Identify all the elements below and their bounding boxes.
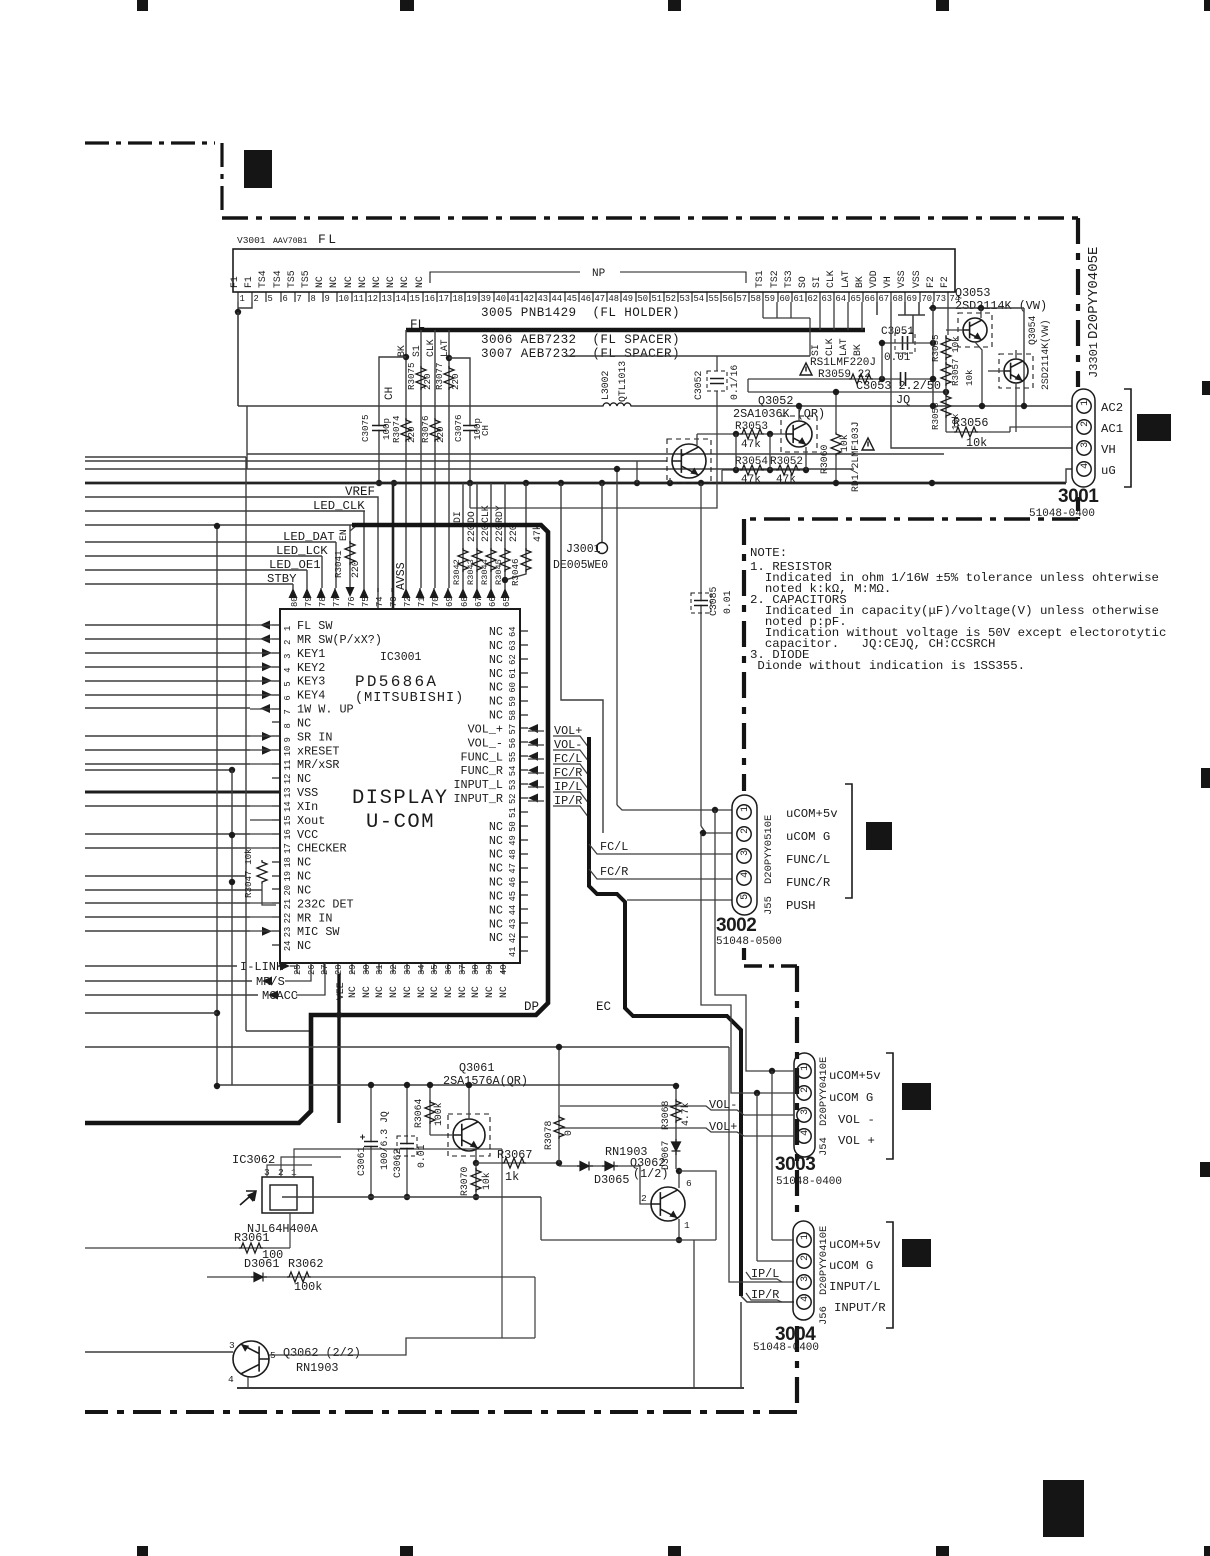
capacitor C3076 — [463, 426, 477, 429]
svg-text:1: 1 — [684, 1220, 690, 1231]
svg-text:J54: J54 — [818, 1137, 830, 1156]
svg-text:3001: 3001 — [1058, 486, 1099, 507]
svg-text:VDD: VDD — [868, 270, 879, 288]
junction — [391, 480, 397, 486]
wire Q3061 emitter — [475, 1148, 477, 1163]
svg-text:65: 65 — [502, 596, 512, 607]
svg-text:AC1: AC1 — [1101, 422, 1123, 436]
svg-text:AC2: AC2 — [1101, 401, 1123, 415]
svg-text:77: 77 — [332, 596, 342, 607]
svg-text:1: 1 — [240, 294, 245, 304]
svg-text:43: 43 — [538, 294, 549, 304]
wire x541 — [540, 1197, 542, 1240]
junction LAT-C3076 — [446, 355, 452, 361]
wire Q3051 collector — [696, 434, 698, 445]
wire IP/L net — [729, 1047, 794, 1282]
wire C3052 top — [716, 356, 718, 371]
wire to DP bus thin part — [85, 524, 352, 526]
arrow into IC top pin — [303, 588, 312, 598]
svg-text:MR IN: MR IN — [297, 911, 332, 925]
svg-text:uCOM+5v: uCOM+5v — [829, 1238, 881, 1252]
board border dash-dot lower vertical upper — [795, 966, 799, 1218]
junction Q3061 emitter — [473, 1160, 479, 1166]
svg-text:11: 11 — [283, 760, 293, 771]
junction C3062 top — [404, 1082, 410, 1088]
svg-text:3002: 3002 — [716, 915, 756, 936]
resistor R3060 10k — [831, 432, 841, 456]
wire S1 column — [420, 330, 422, 588]
svg-text:3: 3 — [800, 1276, 811, 1282]
svg-text:J3301: J3301 — [1087, 342, 1101, 378]
junction x217 bottom — [214, 1010, 220, 1016]
svg-text:59: 59 — [508, 696, 518, 707]
wire ladder to IC row 9 — [85, 735, 250, 737]
arrow into IC — [528, 766, 538, 775]
resistor R3061 100 — [239, 1243, 263, 1253]
wire 3003 pin1 rail — [715, 810, 794, 1071]
svg-text:63: 63 — [822, 294, 833, 304]
svg-text:50: 50 — [508, 821, 518, 832]
junction x933 d — [930, 403, 936, 409]
wire ladder y1013 — [85, 1012, 217, 1014]
connector 3002 pin 3 — [737, 849, 751, 863]
junction R3067 right — [556, 1160, 562, 1166]
svg-text:C3062: C3062 — [392, 1148, 403, 1178]
EC signal bus thick wire — [589, 737, 741, 1296]
junction R3046 bus — [523, 480, 529, 486]
arrow in — [262, 648, 272, 657]
wire ladder y542 — [85, 541, 336, 543]
svg-text:3: 3 — [1080, 442, 1091, 448]
svg-text:NC: NC — [457, 986, 468, 998]
junction Q3053 collector — [978, 305, 984, 311]
svg-text:47k: 47k — [741, 474, 761, 486]
svg-text:51: 51 — [508, 807, 518, 818]
svg-text:VCC: VCC — [297, 828, 318, 842]
junction C3075 to VREF bus — [376, 480, 382, 486]
capacitor C3075 — [372, 426, 386, 429]
wire Q3061 collector — [468, 1085, 470, 1119]
registration mark bottom 5 — [1204, 1546, 1210, 1556]
wire ladder y584 — [85, 583, 293, 585]
arrow out — [260, 704, 270, 713]
wire ladder to IC row 4 — [85, 666, 250, 668]
svg-text:SO: SO — [797, 276, 808, 288]
svg-text:R3041: R3041 — [333, 550, 344, 578]
svg-text:1: 1 — [1080, 400, 1091, 406]
wire R3064 to Q3061 base — [430, 1134, 452, 1136]
svg-text:69: 69 — [445, 596, 455, 607]
svg-text:NC: NC — [489, 876, 503, 890]
board border dash-dot right edge stub — [1076, 497, 1080, 519]
wire 3004 pin1 — [772, 1239, 794, 1241]
svg-text:Xout: Xout — [297, 814, 325, 828]
wire Q3053 base — [946, 329, 963, 331]
svg-text:44: 44 — [552, 294, 563, 304]
svg-text:NC: NC — [489, 820, 503, 834]
warning triangle 2 — [862, 438, 874, 450]
junction R3070 bottom — [473, 1194, 479, 1200]
svg-text:66: 66 — [865, 294, 876, 304]
resistor R3055 10k — [941, 336, 951, 360]
board border dash-dot middle vertical lower — [742, 948, 746, 966]
arrow into IC top pin — [331, 588, 340, 598]
resistor R3052 47k — [776, 465, 800, 475]
capacitor C3052 — [710, 379, 724, 382]
edge mark right 3 — [1200, 1162, 1210, 1177]
junction C3053 left — [879, 376, 885, 382]
svg-text:71: 71 — [417, 596, 427, 607]
svg-text:C3076: C3076 — [453, 414, 464, 442]
svg-text:KEY2: KEY2 — [297, 661, 325, 675]
svg-text:R3043: R3043 — [466, 559, 476, 585]
svg-text:R3077: R3077 — [434, 362, 445, 390]
svg-text:C3061: C3061 — [356, 1146, 367, 1176]
junction C3076 to VREF bus — [467, 480, 473, 486]
wire x882 — [881, 343, 883, 379]
svg-text:51048-0500: 51048-0500 — [716, 936, 782, 948]
wire ladder to IC row 6 — [85, 694, 250, 696]
wire uG to bus — [1066, 469, 1072, 483]
svg-text:220: 220 — [422, 373, 433, 390]
svg-text:R3068: R3068 — [660, 1100, 671, 1130]
wire ladder to IC row 1 — [85, 624, 250, 626]
junction R3064 top — [427, 1082, 433, 1088]
wire IP/R label stub — [746, 1293, 782, 1302]
svg-text:2: 2 — [800, 1087, 811, 1093]
wire Q3053 collector — [980, 308, 982, 318]
connector 3003 pin 2 — [797, 1086, 811, 1100]
svg-text:uG: uG — [1101, 464, 1116, 478]
junction C3061 bottom — [368, 1194, 374, 1200]
wire 47k left vertical — [735, 434, 737, 470]
svg-text:13: 13 — [382, 294, 393, 304]
junction Q3051 emitter — [667, 480, 673, 486]
svg-text:R3057 10k: R3057 10k — [950, 336, 961, 386]
svg-text:0: 0 — [563, 1130, 574, 1136]
svg-text:R3064: R3064 — [413, 1098, 424, 1128]
wire ladder to IC row 7 — [85, 707, 250, 709]
svg-text:uCOM G: uCOM G — [829, 1091, 873, 1105]
arrow into IC — [528, 752, 538, 761]
svg-text:3: 3 — [229, 1340, 235, 1351]
svg-text:LED_OE1: LED_OE1 — [269, 558, 321, 572]
bracket 3002 — [845, 784, 852, 898]
wire to Q3062 base — [640, 1166, 652, 1204]
resistor on CLK column — [486, 548, 496, 572]
junction C3085 top — [698, 480, 704, 486]
svg-text:7: 7 — [283, 709, 293, 714]
svg-text:68: 68 — [460, 596, 470, 607]
registration mark top 4 — [936, 0, 949, 11]
svg-text:VSS: VSS — [896, 270, 907, 288]
wire ladder to IC row 14 — [85, 805, 250, 807]
wire C3062 column — [406, 1085, 408, 1197]
wire Q3051 emitter — [669, 478, 671, 483]
wire staircase to IC pin x293 — [292, 584, 294, 588]
svg-text:53: 53 — [508, 780, 518, 791]
board border dash-dot lower vertical lower — [795, 1326, 799, 1412]
svg-text:FC/L: FC/L — [600, 840, 628, 854]
wire ladder y511 — [85, 510, 365, 512]
wire Q3062 collector — [678, 1171, 680, 1188]
svg-text:73: 73 — [936, 294, 947, 304]
arrow in — [262, 662, 272, 671]
wire vertical x246 — [245, 457, 247, 1031]
wire 3002 pin2 — [701, 826, 732, 833]
svg-text:76: 76 — [347, 596, 357, 607]
IC3062 photodetector box — [262, 1177, 313, 1213]
svg-text:55: 55 — [709, 294, 720, 304]
arrow into IC top pin — [501, 588, 510, 598]
svg-text:47: 47 — [595, 294, 606, 304]
svg-text:0.01: 0.01 — [416, 1144, 427, 1168]
svg-text:R3061: R3061 — [234, 1231, 269, 1245]
svg-text:SR IN: SR IN — [297, 730, 332, 744]
svg-text:23: 23 — [283, 927, 293, 938]
registration mark bottom 3 — [668, 1546, 681, 1556]
svg-text:AAV70B1: AAV70B1 — [273, 237, 307, 246]
wire to pin26 — [285, 963, 311, 981]
registration mark bottom 4 — [936, 1546, 949, 1556]
black square near connector 3002 — [866, 822, 892, 850]
junction 3003 pin1 — [769, 1068, 775, 1074]
svg-text:NC: NC — [489, 625, 503, 639]
wire FL pin2 — [238, 302, 252, 308]
junction R3078 top — [556, 1044, 562, 1050]
svg-text:2SD2114K (VW): 2SD2114K (VW) — [955, 299, 1047, 313]
junction x232 b — [229, 832, 235, 838]
svg-text:10k: 10k — [964, 369, 975, 386]
svg-text:J3001: J3001 — [566, 543, 601, 556]
wire LAT column — [448, 330, 450, 588]
arrow into IC — [528, 794, 538, 803]
svg-text:45: 45 — [567, 294, 578, 304]
svg-text:70: 70 — [431, 596, 441, 607]
registration mark top 3 — [668, 0, 681, 11]
wire ladder y457 — [85, 456, 246, 458]
svg-text:FUNC/R: FUNC/R — [786, 876, 831, 890]
svg-text:C3052: C3052 — [693, 370, 704, 400]
svg-text:EN: EN — [338, 529, 349, 541]
wire uCOM G rail — [756, 1093, 758, 1261]
board border dash-dot top edge — [222, 216, 1078, 220]
svg-text:R3076: R3076 — [420, 415, 431, 443]
wire R3056 row — [946, 431, 1010, 433]
wire 3002 pin1 — [617, 805, 732, 810]
svg-text:1: 1 — [800, 1065, 811, 1071]
svg-text:D20PYY0510E: D20PYY0510E — [763, 815, 775, 884]
arrow in — [262, 676, 272, 685]
svg-text:uCOM+5v: uCOM+5v — [829, 1069, 881, 1083]
diode D3065 a — [577, 1162, 593, 1171]
svg-text:79: 79 — [304, 596, 314, 607]
wire C3061 column — [370, 1085, 372, 1197]
svg-text:TS4: TS4 — [272, 270, 283, 288]
svg-text:TS1: TS1 — [754, 270, 765, 288]
wire uCOM+5v x617 — [616, 469, 618, 805]
svg-text:TS2: TS2 — [769, 270, 780, 288]
svg-text:FUNC_R: FUNC_R — [461, 764, 503, 778]
svg-text:STBY: STBY — [267, 572, 297, 586]
svg-text:59: 59 — [765, 294, 776, 304]
wire uCOM G net — [561, 483, 603, 833]
svg-text:R3055: R3055 — [930, 334, 941, 362]
svg-text:NC: NC — [443, 986, 454, 998]
connector 3002 pin 1 — [737, 805, 751, 819]
transistor Q3062 (2/2) — [233, 1341, 269, 1377]
svg-text:9: 9 — [325, 294, 330, 304]
svg-text:61: 61 — [508, 668, 518, 679]
wire staircase to IC pin x322 — [321, 556, 323, 588]
resistor R3070 10k — [471, 1168, 481, 1192]
wire FC/R to 3002 — [589, 869, 732, 879]
svg-text:INPUT/R: INPUT/R — [834, 1301, 886, 1315]
IC3001 left stubs — [250, 624, 272, 626]
arrow in — [262, 690, 272, 699]
connector 3004 pin 1 — [797, 1233, 811, 1247]
junction D3067 top — [673, 1083, 679, 1089]
connector 3003 pin 1 — [797, 1064, 811, 1078]
svg-text:R3074: R3074 — [391, 415, 402, 443]
connector 3001 pin 1 — [1077, 399, 1091, 413]
svg-text:VOL_-: VOL_- — [468, 736, 503, 750]
svg-text:57: 57 — [737, 294, 748, 304]
wire staircase to IC pin x307 — [306, 570, 308, 588]
junction F2 — [930, 305, 936, 311]
junction C3062 bottom — [404, 1194, 410, 1200]
transistor Q3053 — [963, 318, 987, 342]
wire AC1 — [1010, 427, 1072, 432]
svg-text:2: 2 — [1080, 421, 1091, 427]
junction bus x932 — [929, 480, 935, 486]
svg-text:6: 6 — [283, 294, 288, 304]
junction R3060 top — [833, 389, 839, 395]
junction Q3054-AC2 — [1021, 403, 1027, 409]
svg-text:42: 42 — [508, 933, 518, 944]
wire DI column to IC — [462, 483, 464, 588]
svg-text:42: 42 — [524, 294, 535, 304]
svg-text:NC: NC — [489, 903, 503, 917]
svg-text:F1: F1 — [229, 276, 240, 288]
svg-text:62: 62 — [808, 294, 819, 304]
svg-text:1k: 1k — [505, 1170, 519, 1184]
wire ladder to IC row 2 — [85, 638, 250, 640]
wire uCOM+5v rail — [771, 1071, 773, 1240]
arrow into IC top pin — [430, 588, 439, 598]
svg-text:NC: NC — [388, 986, 399, 998]
svg-text:1: 1 — [800, 1234, 811, 1240]
svg-text:10k: 10k — [481, 1172, 492, 1190]
svg-text:0.1/16: 0.1/16 — [729, 365, 740, 400]
wire ladder to IC row 3 — [85, 652, 250, 654]
wire MCACC — [85, 994, 258, 996]
svg-text:232C DET: 232C DET — [297, 897, 354, 911]
svg-text:41: 41 — [510, 294, 521, 304]
wire C3052 bottom — [470, 391, 717, 508]
svg-text:73: 73 — [389, 596, 399, 607]
junction 3002 pin1 — [712, 807, 718, 813]
svg-text:Q3054: Q3054 — [1027, 315, 1038, 345]
svg-text:3005 PNB1429 (FL HOLDER): 3005 PNB1429 (FL HOLDER) — [481, 306, 680, 320]
svg-text:54: 54 — [694, 294, 705, 304]
connector 3002 pin 4 — [737, 871, 751, 885]
connector 3002 pin 2 — [737, 827, 751, 841]
svg-text:47: 47 — [508, 863, 518, 874]
svg-text:78: 78 — [318, 596, 328, 607]
svg-text:MIC SW: MIC SW — [297, 925, 340, 939]
wire D3061 row — [207, 1276, 535, 1278]
arrow into IC top pin — [402, 588, 411, 598]
svg-text:xRESET: xRESET — [297, 744, 339, 758]
wire ladder to IC row 22 — [85, 916, 250, 918]
svg-text:EC: EC — [596, 1000, 611, 1014]
svg-text:51048-0400: 51048-0400 — [753, 1342, 819, 1354]
capacitor C3061 — [364, 1142, 378, 1145]
IC3001 right pin rows — [520, 630, 528, 632]
svg-text:3: 3 — [800, 1109, 811, 1115]
bracket 3001 — [1124, 389, 1131, 487]
svg-text:F2: F2 — [939, 276, 950, 288]
svg-text:MR SW(P/xX?): MR SW(P/xX?) — [297, 633, 382, 647]
svg-text:64: 64 — [836, 294, 847, 304]
svg-text:NC: NC — [402, 986, 413, 998]
svg-text:58: 58 — [751, 294, 762, 304]
svg-text:61: 61 — [794, 294, 805, 304]
svg-text:12: 12 — [368, 294, 379, 304]
wire VREF to IC pin74 — [85, 497, 378, 609]
wire y469 — [85, 468, 854, 470]
wire 3003 pin2 rail — [701, 833, 794, 1093]
svg-text:NC: NC — [374, 986, 385, 998]
wire y454 — [247, 453, 944, 455]
transistor Q3054 — [1004, 359, 1028, 383]
svg-text:220: 220 — [450, 373, 461, 390]
svg-text:R3078: R3078 — [543, 1120, 554, 1150]
svg-text:1: 1 — [283, 626, 293, 631]
wire R3053 row — [697, 433, 786, 435]
svg-text:11: 11 — [354, 294, 365, 304]
svg-text:100k: 100k — [433, 1102, 444, 1126]
svg-text:DISPLAY: DISPLAY — [352, 787, 449, 810]
svg-text:28: 28 — [334, 964, 344, 975]
junction VEE-DP — [336, 1012, 342, 1018]
svg-text:18: 18 — [283, 857, 293, 868]
svg-text:220: 220 — [406, 426, 417, 443]
svg-text:0.01: 0.01 — [884, 352, 911, 364]
connector 3001 pin 3 — [1077, 441, 1091, 455]
svg-text:46: 46 — [508, 877, 518, 888]
svg-text:17: 17 — [283, 843, 293, 854]
svg-text:56: 56 — [723, 294, 734, 304]
svg-text:L3002: L3002 — [600, 370, 611, 400]
svg-text:TS5: TS5 — [286, 270, 297, 288]
svg-text:2: 2 — [641, 1193, 647, 1204]
svg-text:CLK: CLK — [824, 338, 835, 356]
resistor R3076 220 — [430, 418, 440, 442]
registration mark bottom 2 — [400, 1546, 413, 1556]
wire Q3062-2 pin5 net — [269, 1338, 535, 1355]
resistor R3077 220 — [444, 366, 454, 390]
svg-text:75: 75 — [361, 596, 371, 607]
svg-text:100/6.3 JQ: 100/6.3 JQ — [379, 1111, 390, 1170]
svg-text:220: 220 — [435, 426, 446, 443]
svg-text:48: 48 — [609, 294, 620, 304]
svg-text:14: 14 — [396, 294, 407, 304]
svg-text:R3044: R3044 — [480, 559, 490, 585]
svg-text:2SD2114K(VW): 2SD2114K(VW) — [1040, 319, 1051, 390]
arrow in — [262, 927, 272, 936]
